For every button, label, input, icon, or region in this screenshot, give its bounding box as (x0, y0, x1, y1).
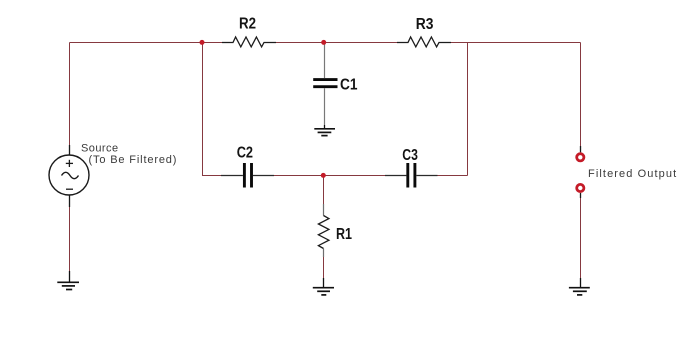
wire middle rail right: C3 to right inner vertical (438, 175, 468, 177)
wire output terminal to ground (580, 194, 582, 278)
svg-text:C3: C3 (402, 147, 418, 164)
output terminal bottom ring (577, 184, 584, 198)
capacitor C2 (221, 163, 274, 188)
svg-text:(To Be Filtered): (To Be Filtered) (89, 154, 178, 166)
output terminal top ring (577, 146, 584, 161)
resistor R2 (222, 37, 276, 47)
wire left column: top rail down to source (69, 43, 71, 146)
ground under output (569, 278, 590, 295)
svg-text:C2: C2 (237, 145, 253, 162)
node junction dot middle (R1 tap) (321, 173, 326, 178)
svg-text:C1: C1 (340, 76, 358, 93)
wire R1 bottom to ground (323, 257, 325, 278)
wire R1 top: middle junction down to R1 (323, 176, 325, 205)
wire top rail mid: R2 to R3 (276, 42, 397, 44)
wire right inner vertical: top rail down to middle rail (467, 43, 469, 176)
svg-text:R3: R3 (416, 16, 434, 33)
node junction dot top-center (C1 tap) (321, 40, 326, 45)
resistor R1 (318, 204, 329, 257)
wire top rail right: R3 to output column (451, 42, 581, 44)
wire left inner vertical: top rail down to middle rail (203, 43, 222, 176)
svg-text:R2: R2 (239, 16, 256, 33)
svg-text:Source: Source (81, 143, 119, 155)
wire top rail left: source top to R2 (70, 42, 223, 44)
ground under source (57, 271, 79, 290)
resistor R3 (397, 37, 451, 47)
wire source bottom to ground (69, 207, 71, 271)
wire right column: top rail down to output terminal (580, 43, 582, 147)
ground under C1 (314, 125, 335, 136)
svg-text:Filtered Output: Filtered Output (588, 168, 677, 180)
capacitor C1 (313, 43, 337, 126)
node junction dot top-left (200, 40, 205, 45)
source V1 (AC source circle) (49, 145, 89, 207)
ground under R1 (313, 278, 334, 295)
svg-text:R1: R1 (336, 226, 352, 243)
wire middle rail: C2 to C3 (274, 175, 385, 177)
capacitor C3 (385, 163, 438, 188)
